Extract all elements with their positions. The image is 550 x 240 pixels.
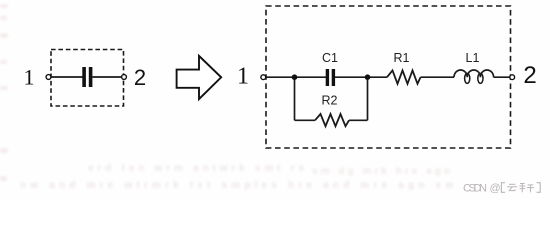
svg-text:erd ten wrm antwrk smt rs: erd ten wrm antwrk smt rs — [88, 163, 306, 174]
svg-text:1: 1 — [237, 64, 249, 90]
svg-text:CSDN: CSDN — [463, 183, 487, 195]
svg-text:R1: R1 — [394, 51, 410, 65]
svg-text:nw and mre wtrmrk txt smples h: nw and mre wtrmrk txt smples hre and mre… — [20, 180, 455, 191]
svg-text:C1: C1 — [322, 51, 338, 65]
svg-text:L1: L1 — [466, 51, 480, 65]
svg-text:2: 2 — [134, 65, 146, 90]
svg-text:1: 1 — [24, 65, 35, 90]
svg-text:R2: R2 — [322, 94, 338, 108]
svg-text:@: @ — [490, 183, 501, 195]
svg-text:sm dg mrk hre agn: sm dg mrk hre agn — [312, 166, 452, 177]
svg-text:2: 2 — [523, 62, 536, 89]
